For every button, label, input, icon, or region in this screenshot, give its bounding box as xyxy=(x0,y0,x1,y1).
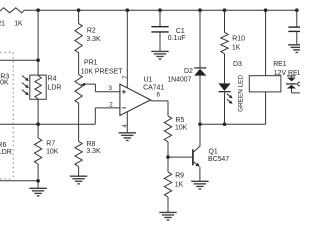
LED D3 arrow 1 xyxy=(227,94,230,96)
wire rail to R2 xyxy=(78,10,80,23)
ground U1 pin4 xyxy=(119,132,136,134)
svg-text:D2: D2 xyxy=(184,68,193,75)
svg-text:CA741: CA741 xyxy=(143,85,164,92)
svg-text:1K: 1K xyxy=(175,181,184,188)
relay RE1 coil box xyxy=(249,76,281,92)
svg-text:LDR: LDR xyxy=(48,84,62,91)
svg-text:R9: R9 xyxy=(175,173,184,180)
wire rail to C1 xyxy=(159,10,161,26)
wire pin4 to ground xyxy=(126,112,128,133)
svg-text:R2: R2 xyxy=(87,27,96,34)
svg-text:R6: R6 xyxy=(0,142,6,149)
wire rail to R10 xyxy=(224,10,226,32)
relay contact pole line xyxy=(296,83,298,85)
svg-text:12V RELAY: 12V RELAY xyxy=(274,70,300,77)
LDR R4 light arrow 3 xyxy=(22,90,26,93)
node mid-D3 xyxy=(223,122,227,126)
wire C1 to ground xyxy=(159,32,161,52)
svg-text:R10: R10 xyxy=(232,36,245,43)
svg-text:1K: 1K xyxy=(232,44,241,51)
capacitor C1 xyxy=(151,26,168,28)
ground R8 xyxy=(70,175,87,177)
preset PR1 xyxy=(75,75,82,104)
svg-text:U1: U1 xyxy=(144,77,153,84)
node rail-C2 xyxy=(295,8,299,12)
wire rail to D2 xyxy=(199,10,201,68)
node rail-R10 xyxy=(223,8,227,12)
svg-text:R4: R4 xyxy=(48,76,57,83)
LDR R4 box xyxy=(30,75,46,99)
svg-text:3.3K: 3.3K xyxy=(86,148,101,155)
op-amp U1 triangle xyxy=(120,84,151,115)
capacitor C2 (clipped) xyxy=(288,26,304,28)
svg-text:BC547: BC547 xyxy=(208,156,229,163)
resistor R2 xyxy=(75,24,82,53)
wire relay to mid wire xyxy=(265,92,267,124)
transistor Q1 emitter xyxy=(193,161,197,164)
svg-text:R5: R5 xyxy=(176,117,185,124)
svg-text:D3: D3 xyxy=(233,61,242,68)
ground C1 xyxy=(151,50,168,52)
ground R9 xyxy=(159,211,176,213)
LDR R4 light arrow 2 xyxy=(22,83,26,86)
node mid-R4/R7 xyxy=(36,122,40,126)
wire node to R4 xyxy=(37,60,39,75)
ground C2 (clipped) xyxy=(288,44,305,46)
node mid-Q1/D2 xyxy=(198,122,202,126)
wire pin6 output xyxy=(151,100,169,102)
wire R10 to D3 xyxy=(224,54,226,84)
ground R7 xyxy=(29,187,46,189)
svg-text:10K: 10K xyxy=(0,79,9,86)
LED D3 xyxy=(218,83,230,91)
svg-text:7: 7 xyxy=(122,75,129,79)
node R7 ground xyxy=(36,179,40,183)
wire rail to C2 xyxy=(296,10,298,26)
svg-text:GREEN LED: GREEN LED xyxy=(238,75,245,112)
svg-text:1K: 1K xyxy=(14,20,23,27)
wire wiper to pin3 xyxy=(94,84,96,92)
svg-text:2: 2 xyxy=(109,102,113,109)
relay contact pole circle xyxy=(298,82,302,86)
transistor Q1 bar xyxy=(192,149,194,165)
wire mid horizontal left xyxy=(0,123,95,125)
node rail-RE1 xyxy=(264,8,268,12)
ground Q1 emitter xyxy=(191,180,208,182)
node rail-D2 xyxy=(198,8,202,12)
svg-text:3: 3 xyxy=(109,85,113,92)
svg-text:0.1uF: 0.1uF xyxy=(168,35,186,42)
wire R1 junction down to LDR node xyxy=(37,10,39,60)
LED D3 arrow 2 xyxy=(227,99,230,101)
svg-text:4: 4 xyxy=(122,124,129,128)
wire +12V top rail xyxy=(38,9,297,11)
svg-text:3.3K: 3.3K xyxy=(86,36,101,43)
svg-text:Q1: Q1 xyxy=(209,149,218,156)
wire mid horizontal right xyxy=(200,123,266,125)
dashed LDR enclosure xyxy=(0,51,13,53)
wire ground stub left xyxy=(0,180,38,182)
wire mid to pin2 step xyxy=(94,108,96,124)
svg-text:10K: 10K xyxy=(175,125,188,132)
op-amp minus input mark xyxy=(122,107,126,109)
resistor R1 xyxy=(0,8,38,13)
wire D3 to mid wire xyxy=(224,92,226,125)
relay contact terminal top xyxy=(287,75,295,77)
resistor R8 xyxy=(78,124,80,141)
relay contact lower triangle xyxy=(287,85,296,89)
svg-text:PR1: PR1 xyxy=(84,60,98,67)
LDR R4 light arrow 1 xyxy=(22,76,26,79)
wire R4 to mid wire xyxy=(37,99,39,124)
node rail-C1 xyxy=(158,8,162,12)
svg-text:C1: C1 xyxy=(176,28,185,35)
wire base xyxy=(168,156,193,158)
resistor R10 xyxy=(221,32,228,53)
resistor R7 xyxy=(37,124,39,138)
relay contact bar xyxy=(286,83,296,85)
node base xyxy=(166,155,170,159)
svg-text:R1: R1 xyxy=(0,20,5,27)
wire rail to relay xyxy=(265,10,267,76)
resistor R5 xyxy=(167,101,169,116)
wire R2 to PR1 xyxy=(78,53,80,75)
wire D2 to mid wire xyxy=(199,76,201,125)
diode D2 xyxy=(194,67,206,69)
transistor Q1 collector xyxy=(193,146,200,153)
svg-text:1N4007: 1N4007 xyxy=(167,76,191,83)
svg-text:RE1: RE1 xyxy=(273,61,287,68)
wire pin7 to rail xyxy=(126,10,128,88)
node rail-R1 xyxy=(36,8,40,12)
node rail-R2 xyxy=(77,8,81,12)
svg-text:10K PRESET: 10K PRESET xyxy=(81,68,124,75)
wire LDR node left to R3 xyxy=(0,59,38,61)
resistor R9 xyxy=(167,157,169,172)
svg-text:6: 6 xyxy=(157,92,161,99)
LDR R4 zigzag xyxy=(35,76,41,99)
PR1 wiper arrow xyxy=(84,83,95,85)
node rail-pin7 xyxy=(126,8,130,12)
relay contact upper triangle xyxy=(287,78,296,82)
relay contact lower lead xyxy=(291,89,293,93)
svg-text:R8: R8 xyxy=(87,141,96,148)
svg-text:LDR: LDR xyxy=(0,149,12,156)
wire C2 to ground xyxy=(296,31,298,44)
wire PR1 to mid wire xyxy=(78,103,80,124)
svg-text:10K: 10K xyxy=(46,149,59,156)
node LDR top xyxy=(36,58,40,62)
svg-text:R7: R7 xyxy=(46,141,55,148)
op-amp plus input mark xyxy=(122,91,126,93)
